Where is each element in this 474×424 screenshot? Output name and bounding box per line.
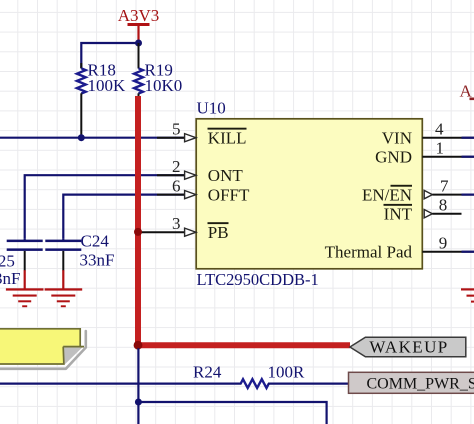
junction (red, PB tap) bbox=[134, 228, 142, 236]
op-amp U10 body bbox=[196, 99, 422, 290]
junction bbox=[135, 399, 142, 406]
svg-text:33nF: 33nF bbox=[80, 251, 115, 270]
svg-text:GND: GND bbox=[375, 148, 412, 167]
svg-text:3: 3 bbox=[172, 214, 181, 233]
pin 3 PB bbox=[140, 214, 229, 242]
junction (red, corner) bbox=[134, 341, 143, 350]
resistor R18 bbox=[77, 61, 126, 138]
svg-text:33nF: 33nF bbox=[0, 269, 20, 288]
pin 1 GND bbox=[375, 139, 474, 167]
svg-text:INT: INT bbox=[384, 205, 413, 224]
power port A3V3 (partial, right edge) bbox=[460, 81, 474, 100]
junction (R18 to KILL wire) bbox=[78, 134, 85, 141]
port COMM_PWR_SHDN bbox=[349, 372, 474, 393]
pin 9 Thermal Pad bbox=[325, 234, 474, 262]
wire (highlighted net, thick red horizontal to WAKEUP) bbox=[135, 342, 350, 348]
svg-text:A: A bbox=[460, 81, 473, 100]
ground (C25) bbox=[6, 270, 44, 307]
wire (left bus horizontal) bbox=[0, 383, 242, 385]
svg-text:2: 2 bbox=[172, 157, 181, 176]
svg-text:Thermal Pad: Thermal Pad bbox=[325, 243, 413, 262]
ground (C24) bbox=[45, 270, 83, 307]
pin 4 VIN bbox=[382, 120, 474, 148]
wire (R24 to COMM port) bbox=[268, 383, 349, 385]
power port A3V3 bbox=[118, 6, 160, 43]
junction bbox=[135, 40, 142, 47]
pin 7 EN/EN bbox=[362, 176, 474, 204]
wire (lower horizontal + drop) bbox=[138, 402, 326, 424]
svg-text:LTC2950CDDB-1: LTC2950CDDB-1 bbox=[197, 270, 319, 289]
svg-text:ONT: ONT bbox=[208, 166, 244, 185]
svg-text:9: 9 bbox=[439, 234, 448, 253]
ground (right edge, partial) bbox=[461, 288, 474, 302]
svg-text:5: 5 bbox=[172, 120, 181, 139]
wire (vertical below red corner) bbox=[137, 348, 139, 424]
capacitor C25 bbox=[0, 239, 43, 288]
svg-text:8: 8 bbox=[439, 196, 448, 215]
svg-text:U10: U10 bbox=[197, 99, 226, 118]
port WAKEUP bbox=[350, 337, 466, 357]
note (yellow sticky with folded corner) bbox=[0, 328, 86, 369]
wire (highlighted net, thick red vertical) bbox=[135, 96, 141, 345]
svg-text:7: 7 bbox=[440, 176, 449, 195]
capacitor C24 bbox=[45, 232, 114, 271]
pin 8 INT bbox=[384, 196, 462, 224]
pin 2 ONT bbox=[25, 157, 244, 239]
svg-text:1: 1 bbox=[436, 139, 445, 158]
svg-text:10K0: 10K0 bbox=[145, 76, 183, 95]
svg-text:100K: 100K bbox=[88, 76, 127, 95]
svg-text:COMM_PWR_SHDN: COMM_PWR_SHDN bbox=[367, 376, 474, 393]
svg-text:VIN: VIN bbox=[382, 129, 412, 148]
svg-text:KILL: KILL bbox=[208, 129, 247, 148]
wire bbox=[81, 43, 138, 68]
svg-text:C24: C24 bbox=[81, 232, 110, 251]
resistor R24 bbox=[193, 362, 305, 388]
svg-text:6: 6 bbox=[172, 176, 181, 195]
svg-text:OFFT: OFFT bbox=[208, 186, 250, 205]
svg-text:PB: PB bbox=[208, 223, 229, 242]
svg-text:A3V3: A3V3 bbox=[118, 6, 160, 25]
pin 6 OFFT bbox=[63, 176, 250, 239]
resistor R19 bbox=[134, 43, 182, 97]
svg-text:C25: C25 bbox=[0, 252, 15, 271]
svg-text:WAKEUP: WAKEUP bbox=[369, 338, 448, 357]
svg-text:EN/EN: EN/EN bbox=[362, 186, 412, 205]
pin 5 KILL bbox=[0, 120, 247, 148]
svg-text:R24: R24 bbox=[193, 362, 222, 381]
svg-text:100R: 100R bbox=[268, 362, 306, 381]
svg-text:4: 4 bbox=[435, 120, 444, 139]
